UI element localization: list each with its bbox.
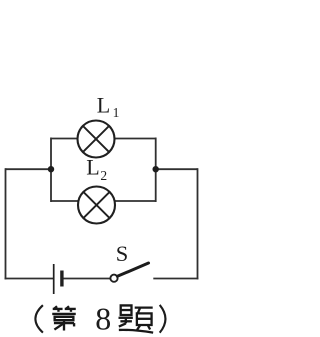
svg-text:1: 1 — [113, 105, 120, 120]
svg-text:L: L — [97, 92, 110, 117]
svg-text:2: 2 — [100, 168, 107, 183]
svg-text:L: L — [86, 155, 99, 180]
svg-text:S: S — [116, 241, 129, 266]
svg-text:8: 8 — [95, 301, 111, 337]
